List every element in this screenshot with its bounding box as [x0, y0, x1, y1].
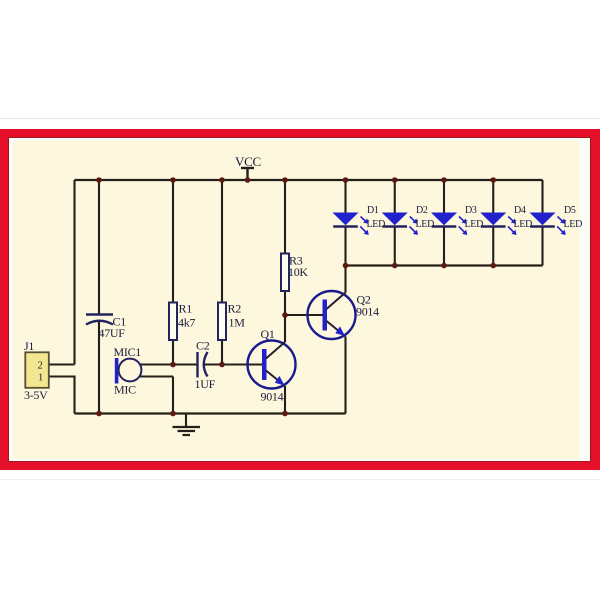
node: [219, 362, 225, 368]
microphone MIC1: [114, 345, 142, 397]
svg-text:D2: D2: [416, 205, 428, 216]
wire: [443, 180, 445, 213]
wire: [284, 180, 286, 254]
transistor Q2: [308, 291, 380, 339]
svg-text:LED: LED: [514, 219, 533, 230]
node: [343, 177, 349, 183]
node: [170, 177, 176, 183]
wire LED cathode bus: [346, 264, 543, 266]
wire ground bus: [75, 412, 346, 414]
capacitor C2: [195, 339, 216, 392]
svg-text:LED: LED: [367, 219, 386, 230]
wire: [285, 314, 323, 316]
wire: [75, 179, 543, 181]
node: [282, 312, 288, 318]
svg-text:J1: J1: [24, 339, 34, 353]
svg-text:2: 2: [38, 361, 43, 372]
wire: [394, 180, 396, 213]
node: [441, 263, 447, 269]
svg-text:R1: R1: [179, 302, 193, 316]
wire: [73, 377, 75, 414]
wire: [172, 377, 174, 414]
node: [282, 177, 288, 183]
wire: [344, 266, 346, 293]
node: [170, 411, 176, 417]
svg-text:1: 1: [38, 373, 43, 384]
node: [441, 177, 447, 183]
node: [343, 263, 349, 269]
wire: [140, 363, 198, 365]
svg-text:LED: LED: [465, 219, 484, 230]
svg-text:9014: 9014: [261, 390, 284, 404]
wire: [492, 180, 494, 213]
wire: [98, 180, 100, 315]
svg-text:4k7: 4k7: [178, 316, 195, 330]
wire: [284, 291, 286, 315]
wire: [221, 180, 223, 303]
svg-text:Q1: Q1: [261, 327, 275, 341]
wire: [344, 180, 346, 213]
node: [170, 362, 176, 368]
wire: [541, 180, 543, 213]
svg-text:LED: LED: [564, 219, 583, 230]
resistor R1: [169, 302, 195, 341]
svg-text:1UF: 1UF: [195, 377, 216, 391]
wire: [172, 180, 174, 303]
LED D5: [530, 213, 566, 235]
wire: [49, 363, 75, 365]
wire: [221, 340, 223, 365]
svg-text:LED: LED: [416, 219, 435, 230]
svg-text:10K: 10K: [288, 265, 308, 279]
LED D4: [481, 213, 517, 235]
wire: [394, 227, 396, 266]
svg-text:C2: C2: [196, 339, 210, 353]
wire: [98, 321, 100, 414]
svg-text:D5: D5: [564, 205, 576, 216]
resistor R2: [218, 302, 245, 341]
capacitor C1: [86, 315, 126, 341]
LED D3: [432, 213, 468, 235]
node: [392, 177, 398, 183]
wire: [284, 315, 286, 342]
node: [490, 177, 496, 183]
svg-text:9014: 9014: [356, 305, 379, 319]
ground: [173, 414, 201, 436]
node: [490, 263, 496, 269]
svg-text:D1: D1: [367, 205, 379, 216]
svg-text:D3: D3: [465, 205, 477, 216]
wire: [284, 386, 286, 414]
node: [392, 263, 398, 269]
node: [219, 177, 225, 183]
wire: [492, 227, 494, 266]
svg-text:MIC1: MIC1: [114, 345, 142, 359]
power VCC: [235, 154, 261, 180]
node: [282, 411, 288, 417]
wire: [541, 227, 543, 266]
LED D2: [382, 213, 418, 235]
LED D1: [333, 213, 369, 235]
transistor Q1: [248, 327, 296, 404]
wire: [73, 180, 75, 365]
svg-text:VCC: VCC: [235, 154, 261, 169]
node: [96, 411, 102, 417]
svg-text:R2: R2: [228, 302, 242, 316]
svg-text:D4: D4: [514, 205, 526, 216]
svg-text:47UF: 47UF: [99, 326, 126, 340]
wire: [344, 337, 346, 414]
wire: [344, 227, 346, 266]
wire: [49, 375, 76, 377]
resistor R3: [281, 254, 308, 292]
wire: [172, 340, 174, 365]
connector J1: [24, 339, 49, 402]
node: [245, 177, 251, 183]
svg-text:1M: 1M: [229, 316, 246, 330]
svg-text:MIC: MIC: [114, 383, 136, 397]
node: [96, 177, 102, 183]
svg-text:3-5V: 3-5V: [24, 388, 48, 402]
wire: [140, 375, 173, 377]
wire: [204, 363, 263, 365]
wire: [443, 227, 445, 266]
